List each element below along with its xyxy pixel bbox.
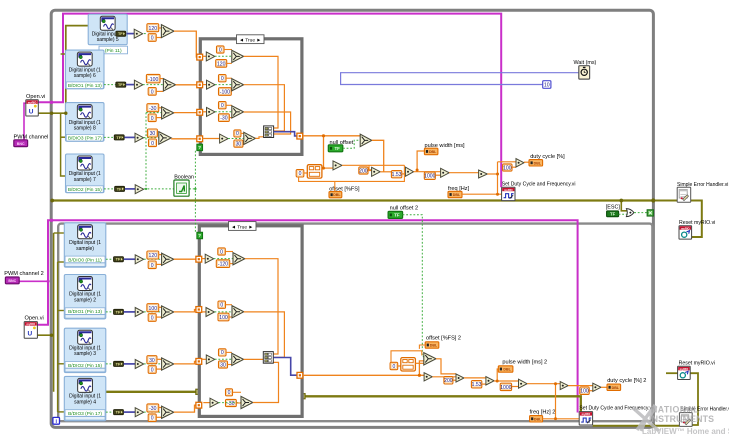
wire express7 to TF row5 <box>104 188 114 190</box>
svg-text:TF: TF <box>118 83 123 87</box>
svg-text:B/DIO3 (Pin 17): B/DIO3 (Pin 17) <box>68 136 102 142</box>
constant 0 row1 <box>148 34 156 42</box>
case2 inside row1 triangle <box>201 258 205 260</box>
case1 inside row2 select <box>215 84 232 86</box>
case1 inside row4 constant 30 <box>234 140 243 147</box>
wire multiply D to E <box>449 172 478 174</box>
svg-text:TF: TF <box>334 146 340 151</box>
wire: error olive bus top half <box>52 199 651 201</box>
svg-text:myRIO: myRIO <box>26 322 35 326</box>
svg-text:myRIO: myRIO <box>582 412 591 416</box>
junction dots orange <box>322 134 325 137</box>
svg-text:BNC: BNC <box>8 279 16 283</box>
svg-text:sample) 3: sample) 3 <box>74 351 96 357</box>
wire to duty cycle 2 indicator <box>601 386 607 388</box>
case2 inside row4 triangle <box>203 402 210 404</box>
inner while loop frame (bottom half) <box>58 224 652 422</box>
wire: error olive left column bottom half <box>53 233 55 392</box>
svg-text:0: 0 <box>151 263 154 269</box>
multiply C2 <box>486 377 494 385</box>
svg-text:sample) 5: sample) 5 <box>97 37 119 43</box>
svg-text:TF: TF <box>116 136 121 140</box>
svg-text:-120: -120 <box>218 262 228 268</box>
case2 inside row2 triangle <box>201 311 206 313</box>
svg-text:[ESC]: [ESC] <box>606 205 621 211</box>
multiply D2 <box>519 379 528 388</box>
case2 inside row3 select <box>215 358 232 360</box>
wire OR gate to loop condition <box>634 212 647 214</box>
select2 node <box>424 353 436 365</box>
svg-text:Open.vi: Open.vi <box>26 94 45 100</box>
case1 inside row2 constant -100 <box>219 88 232 96</box>
wire select2 out to multiply B2 <box>436 359 456 374</box>
select node row4 <box>159 132 171 145</box>
svg-text:DBL: DBL <box>503 368 511 372</box>
svg-text:DBL: DBL <box>453 193 461 197</box>
svg-text:LabVIEW™ Home and Stude: LabVIEW™ Home and Stude <box>642 427 729 436</box>
output tunnel case1 <box>297 133 303 139</box>
select node row2 <box>160 78 163 80</box>
svg-text:duty cycle [%] 2: duty cycle [%] 2 <box>607 378 646 384</box>
constant 0 row3 <box>148 114 156 122</box>
case2 inside row4 constant 0 <box>226 389 233 396</box>
wire row3 select to tunnel <box>174 112 201 114</box>
wire case2 output long horizontal <box>303 374 424 376</box>
svg-text:30: 30 <box>236 141 242 147</box>
TF converter row2 <box>116 82 126 87</box>
svg-text:(Pin 11): (Pin 11) <box>105 48 122 54</box>
multiply F duty <box>516 159 524 167</box>
boolean-convert triangle row2 <box>134 80 143 89</box>
svg-text:sample) 2: sample) 2 <box>74 298 96 304</box>
svg-text:B/DIO0 (Pin 11): B/DIO0 (Pin 11) <box>68 257 102 263</box>
constant -30 row3 <box>147 104 159 112</box>
svg-text:-30: -30 <box>149 106 157 112</box>
svg-text:0: 0 <box>220 249 223 255</box>
svg-text:200: 200 <box>359 168 368 174</box>
wire TF to triangle row2 <box>126 84 134 86</box>
svg-text:sample) 4: sample) 4 <box>74 399 96 405</box>
wire null offset boolean to select <box>343 140 360 148</box>
case1 inside row2 constant 0 <box>219 75 227 82</box>
svg-text:30: 30 <box>220 362 226 368</box>
constant 30 row4 <box>147 129 157 137</box>
svg-text:1.53: 1.53 <box>392 172 402 178</box>
constant 1000 <box>424 172 435 179</box>
olive tunnel case2 left <box>196 389 201 394</box>
constant 1000 bottom <box>500 383 511 390</box>
wire freq to VI <box>462 193 502 195</box>
svg-text:1000: 1000 <box>424 174 435 180</box>
svg-text:DBL: DBL <box>333 193 341 197</box>
constant 120 row1 <box>147 24 159 32</box>
express VI Digital input (1 sample) 5 <box>88 14 127 45</box>
svg-text:0: 0 <box>221 76 224 82</box>
svg-text:-30: -30 <box>220 116 228 122</box>
multiply E2 <box>560 382 568 390</box>
wire in-range to multiply A <box>322 167 333 169</box>
wire freq2 riser <box>555 384 557 419</box>
multiply A <box>333 161 342 170</box>
wire 0 to in-range2 <box>398 365 401 367</box>
svg-text:-30: -30 <box>149 406 157 412</box>
wire: error olive Reset myRIO 2 to Simple Error Handler 2 <box>690 373 698 425</box>
svg-text:0: 0 <box>228 390 231 396</box>
case1 inside row3 constant -30 <box>219 114 230 122</box>
in range and coerce node 2 <box>401 358 416 371</box>
boolean-convert triangle row4 <box>135 133 144 142</box>
multiply B2 <box>456 374 464 382</box>
wire: error olive stub into Reset myRIO 2 <box>666 372 678 374</box>
svg-text:B/DIO2 (Pin 15): B/DIO2 (Pin 15) <box>68 363 102 369</box>
svg-text:DBL: DBL <box>534 417 542 421</box>
wire multiply C2 out junction <box>494 380 518 382</box>
svg-text:myRIO: myRIO <box>680 367 689 371</box>
case2 collector wires <box>245 259 278 354</box>
svg-text:100: 100 <box>580 389 589 395</box>
svg-text:0: 0 <box>151 89 154 95</box>
wire build array to tunnel case2 <box>274 358 298 376</box>
wire row1 express5 to TF <box>127 33 135 35</box>
case2 inside row4 select <box>219 402 242 404</box>
wire: error olive Open.vi 2 into loop <box>37 334 53 336</box>
constant 0 offset2 <box>390 362 398 369</box>
svg-text:TF: TF <box>117 187 122 191</box>
svg-text:sample): sample) <box>76 246 94 252</box>
wire multiply E out riser <box>487 173 497 175</box>
tunnel row4 case1 <box>197 136 203 142</box>
wire case1 output to select and down <box>303 135 360 137</box>
svg-text:DBL: DBL <box>534 161 542 165</box>
constant 0 offset chain <box>296 170 304 177</box>
wire offset2 loop <box>391 351 422 363</box>
wire multiply B out and select drop <box>380 171 391 173</box>
select node row3 <box>159 107 162 109</box>
constant 0 row2 <box>148 88 156 96</box>
svg-text:U: U <box>27 331 32 338</box>
wire: error olive left column drop top half <box>61 113 66 176</box>
wire row4 express8 to TF <box>104 136 114 138</box>
multiply B <box>372 167 381 176</box>
case1 inside row1 constant 0 <box>217 46 225 53</box>
wire TF to triangle row4 <box>124 136 134 138</box>
svg-text:pulse width [ms] 2: pulse width [ms] 2 <box>502 360 547 366</box>
TF converter row1 <box>116 31 126 36</box>
svg-text:-30: -30 <box>227 401 235 407</box>
svg-text:BNC: BNC <box>17 142 25 146</box>
express VI Digital input (1 sample) 7 <box>66 154 105 193</box>
svg-text:sample) 8: sample) 8 <box>74 126 96 132</box>
svg-text:myRIO: myRIO <box>681 226 690 230</box>
svg-text:B/DIO3 (Pin 17): B/DIO3 (Pin 17) <box>68 411 102 417</box>
case2 inside row4 constant -30 <box>226 399 237 406</box>
wire: PWM channel 1 constant riser <box>24 103 26 140</box>
multiply E <box>479 170 488 178</box>
case1 inside row1 triangle <box>202 55 206 57</box>
in range and coerce node <box>307 165 322 178</box>
output tunnel case2 <box>297 372 303 378</box>
constant 10 wait <box>543 81 551 89</box>
svg-text:0: 0 <box>392 364 395 370</box>
constant -100 row2 <box>146 74 160 82</box>
wire: error olive bus bottom half left of case 2 <box>106 391 196 393</box>
svg-text:0: 0 <box>220 303 223 309</box>
constant 100 duty <box>503 164 512 171</box>
olive tunnel case2 right <box>300 394 305 399</box>
wire: blue iteration U wire to Wait ms <box>341 73 579 85</box>
wire to duty cycle indicator <box>524 161 529 163</box>
wire multiply A long out <box>342 164 404 166</box>
svg-text:B/DIO1 (Pin 13): B/DIO1 (Pin 13) <box>68 309 102 315</box>
constant 1.53 <box>391 171 401 178</box>
svg-text:0: 0 <box>151 116 154 122</box>
wire in-range2 to select2 <box>415 362 423 364</box>
wire boolean into select row3 <box>146 112 162 114</box>
case1 inside row3 select <box>215 111 232 113</box>
case2 inside row1 constant -120 <box>216 260 229 268</box>
constant 100 bottom <box>580 387 589 394</box>
svg-text:myRIO: myRIO <box>28 100 37 104</box>
select node null offset <box>360 134 372 146</box>
junction dots olive <box>50 112 53 115</box>
svg-text:◄ True ►: ◄ True ► <box>239 38 261 44</box>
svg-text:U: U <box>29 108 34 115</box>
case1 inside row3 constant 0 <box>219 102 227 109</box>
svg-text:1000: 1000 <box>500 385 511 391</box>
express VI Digital input (1 sample) 2 <box>64 275 106 319</box>
wire: error olive Open.vi to express column <box>38 26 88 114</box>
multiply F2 <box>593 383 601 391</box>
outer while loop frame <box>51 10 653 427</box>
TF converter row4 <box>114 135 124 140</box>
svg-text:0: 0 <box>221 350 224 356</box>
wire multiply D2 to E2 <box>527 383 560 385</box>
svg-text:0: 0 <box>299 171 302 177</box>
boolean-convert triangle express7 <box>135 185 144 194</box>
constant 200 <box>359 167 368 174</box>
svg-text:0: 0 <box>221 103 224 109</box>
watermark NI logo <box>633 405 729 437</box>
case1 collector wires <box>244 56 278 128</box>
boolean junction <box>145 188 147 190</box>
loop iteration terminal <box>53 417 60 424</box>
case2 inside row1 constant 0 <box>218 248 226 255</box>
svg-text:TF: TF <box>116 362 121 366</box>
wire offset loop <box>299 165 405 181</box>
svg-text:DBL: DBL <box>612 386 620 390</box>
wire boolean to Boolean indicator and branches <box>144 188 174 190</box>
svg-text:200: 200 <box>444 378 453 384</box>
svg-text:0: 0 <box>151 368 154 374</box>
wire: error olive to Simple Error Handler 1 <box>652 200 678 202</box>
svg-text:0: 0 <box>151 316 154 322</box>
wire row1 select to tunnel <box>174 31 200 57</box>
case2 inside row3 constant 0 <box>219 349 227 356</box>
boolean-convert triangle row1 <box>144 33 147 35</box>
svg-text:120: 120 <box>217 61 226 67</box>
svg-text:TF: TF <box>116 411 121 415</box>
multiply A2 <box>424 373 432 381</box>
svg-text:TF: TF <box>116 258 121 262</box>
case selector tunnel case2 <box>197 232 203 238</box>
svg-text:INSTRUMENTS: INSTRUMENTS <box>649 414 714 424</box>
svg-text:-100: -100 <box>148 77 158 83</box>
wire freq2 to VI 2 <box>543 418 580 420</box>
express VI Digital input (1 sample) 4 <box>64 376 106 420</box>
svg-text:DBL: DBL <box>429 150 437 154</box>
svg-text:30: 30 <box>149 358 155 364</box>
wire boolean riser to case selectors <box>194 151 196 233</box>
svg-text:freq [Hz] 2: freq [Hz] 2 <box>530 410 556 416</box>
svg-text:100: 100 <box>503 165 512 171</box>
svg-text:DBL: DBL <box>430 344 438 348</box>
wire jog into multiply B <box>369 165 372 170</box>
wire select out down to multiply chain <box>372 140 384 172</box>
multiply C <box>405 167 413 176</box>
svg-text:PWM channel 2: PWM channel 2 <box>4 271 43 277</box>
bottom row3 chain express 3 <box>106 363 113 365</box>
svg-text:null offset 2: null offset 2 <box>390 206 419 212</box>
tunnel row3 case1 <box>197 109 203 115</box>
wire: error olive drop to OR gate <box>621 201 627 211</box>
wire: error olive Set Duty 2 to frame corner and Simple Error Handler 2 <box>593 425 680 427</box>
svg-text:10: 10 <box>544 83 550 89</box>
case structure 1 (top) <box>200 39 302 155</box>
svg-text:B/DIO1 (Pin 13): B/DIO1 (Pin 13) <box>68 83 102 89</box>
svg-text:100: 100 <box>149 306 158 312</box>
case1 inside row1 constant 120 <box>216 60 227 68</box>
express VI Digital input (1 sample) 6 <box>66 50 105 89</box>
constant 1.53 bottom <box>471 381 481 388</box>
svg-text:Open.vi: Open.vi <box>25 316 44 322</box>
wire: PWM channel 2 magenta rail <box>37 220 577 412</box>
case1 inside row4 select <box>228 138 244 140</box>
svg-text:0: 0 <box>151 141 154 147</box>
svg-text:sample) 6: sample) 6 <box>74 73 96 79</box>
svg-text:-100: -100 <box>220 90 230 96</box>
svg-text:B/DIO2 (Pin 15): B/DIO2 (Pin 15) <box>68 187 102 193</box>
wire multiply C out junction <box>414 171 441 173</box>
express VI Digital input (1 sample) 8 <box>66 103 105 142</box>
svg-text:0: 0 <box>151 416 154 422</box>
constant 0 row4 <box>149 139 157 147</box>
svg-text:myRIO: myRIO <box>504 188 513 192</box>
svg-text:TF: TF <box>118 32 123 36</box>
multiply D <box>441 168 450 177</box>
svg-text:?: ? <box>198 145 201 150</box>
case2 inside row3 constant 30 <box>219 361 228 368</box>
OR gate <box>626 209 634 217</box>
wire multiply B2 to C2 <box>464 377 486 379</box>
case2 inside row1 select <box>214 258 233 260</box>
select node row1 <box>159 27 162 29</box>
case2 inside row2 select <box>215 311 233 313</box>
case1 inside row2 triangle <box>202 84 206 86</box>
case2 inside row2 constant 100 <box>218 313 229 321</box>
svg-text:120: 120 <box>149 26 158 32</box>
wire riser to select2 <box>419 361 423 375</box>
bottom row4 chain express 4 <box>106 411 113 413</box>
wire build array to tunnel case1 <box>274 132 297 136</box>
svg-text:0: 0 <box>151 36 154 42</box>
wire: error olive Simple Error Handler 1 to Reset myRIO 1 <box>691 201 702 238</box>
wire 0 to in-range <box>304 172 308 174</box>
tunnel row2 case1 <box>197 82 203 88</box>
svg-text:TF: TF <box>610 212 616 217</box>
svg-text:120: 120 <box>149 253 158 259</box>
express VI Digital input (1 sample) 3 <box>64 328 106 372</box>
svg-text:Reset myRIO.vi: Reset myRIO.vi <box>679 361 715 367</box>
svg-text:TF: TF <box>116 310 121 314</box>
bottom row2 chain express 2 <box>106 311 113 313</box>
case2 inside row3 triangle <box>201 358 206 360</box>
case1 inside row1 select <box>215 55 232 57</box>
case1 inside row3 triangle <box>202 111 206 113</box>
junction dots magenta <box>50 101 53 104</box>
wire ESC to OR gate <box>619 213 628 215</box>
svg-text:30: 30 <box>150 131 156 137</box>
svg-text:Wait (ms): Wait (ms) <box>574 60 597 66</box>
wire row2 express6 to TF <box>104 84 116 86</box>
wire multiply A2 out <box>432 376 456 378</box>
wire null offset 2 down to select2 <box>403 215 424 357</box>
svg-text:0: 0 <box>236 131 239 137</box>
svg-text:◄ True ►: ◄ True ► <box>231 224 253 230</box>
svg-text:offset [%FS] 2: offset [%FS] 2 <box>426 335 461 341</box>
svg-text:?: ? <box>198 233 201 238</box>
wire row4 select to tunnel <box>171 138 200 140</box>
wire row2 select to tunnel <box>176 84 201 86</box>
svg-text:1.53: 1.53 <box>472 382 482 388</box>
svg-text:Set Duty Cycle and Frequency.v: Set Duty Cycle and Frequency.vi <box>579 405 653 411</box>
case1 inside row4 triangle <box>202 138 219 140</box>
tunnel row1 case1 <box>197 54 203 60</box>
case1 inside row4 constant 0 <box>234 130 241 137</box>
build array node case1 <box>264 126 274 138</box>
bottom row1 chain express b1 <box>106 258 113 260</box>
svg-text:sample) 7: sample) 7 <box>74 177 96 183</box>
loop condition terminal <box>647 210 653 216</box>
case structure 2 (bottom) <box>199 226 302 417</box>
wire: PWM channel 1 magenta to top rail <box>38 14 501 188</box>
wire: error olive bus bottom half right of case 2 <box>306 396 581 412</box>
TF converter express7 <box>115 186 125 191</box>
wire TF to triangle express7 <box>125 188 135 190</box>
constant 200 bottom <box>444 377 453 384</box>
wire: PWM channel 2 constant feed <box>19 280 48 282</box>
case selector tunnel case1 <box>197 144 203 150</box>
build array node case2 <box>263 352 273 364</box>
svg-text:0: 0 <box>219 47 222 53</box>
case2 inside row2 constant 0 <box>218 301 226 308</box>
wire multiply E2 to F2 <box>568 385 593 387</box>
svg-text:TF: TF <box>394 213 400 218</box>
express VI Digital input (1 sample) b1 <box>64 223 106 267</box>
svg-text:100: 100 <box>219 315 228 321</box>
